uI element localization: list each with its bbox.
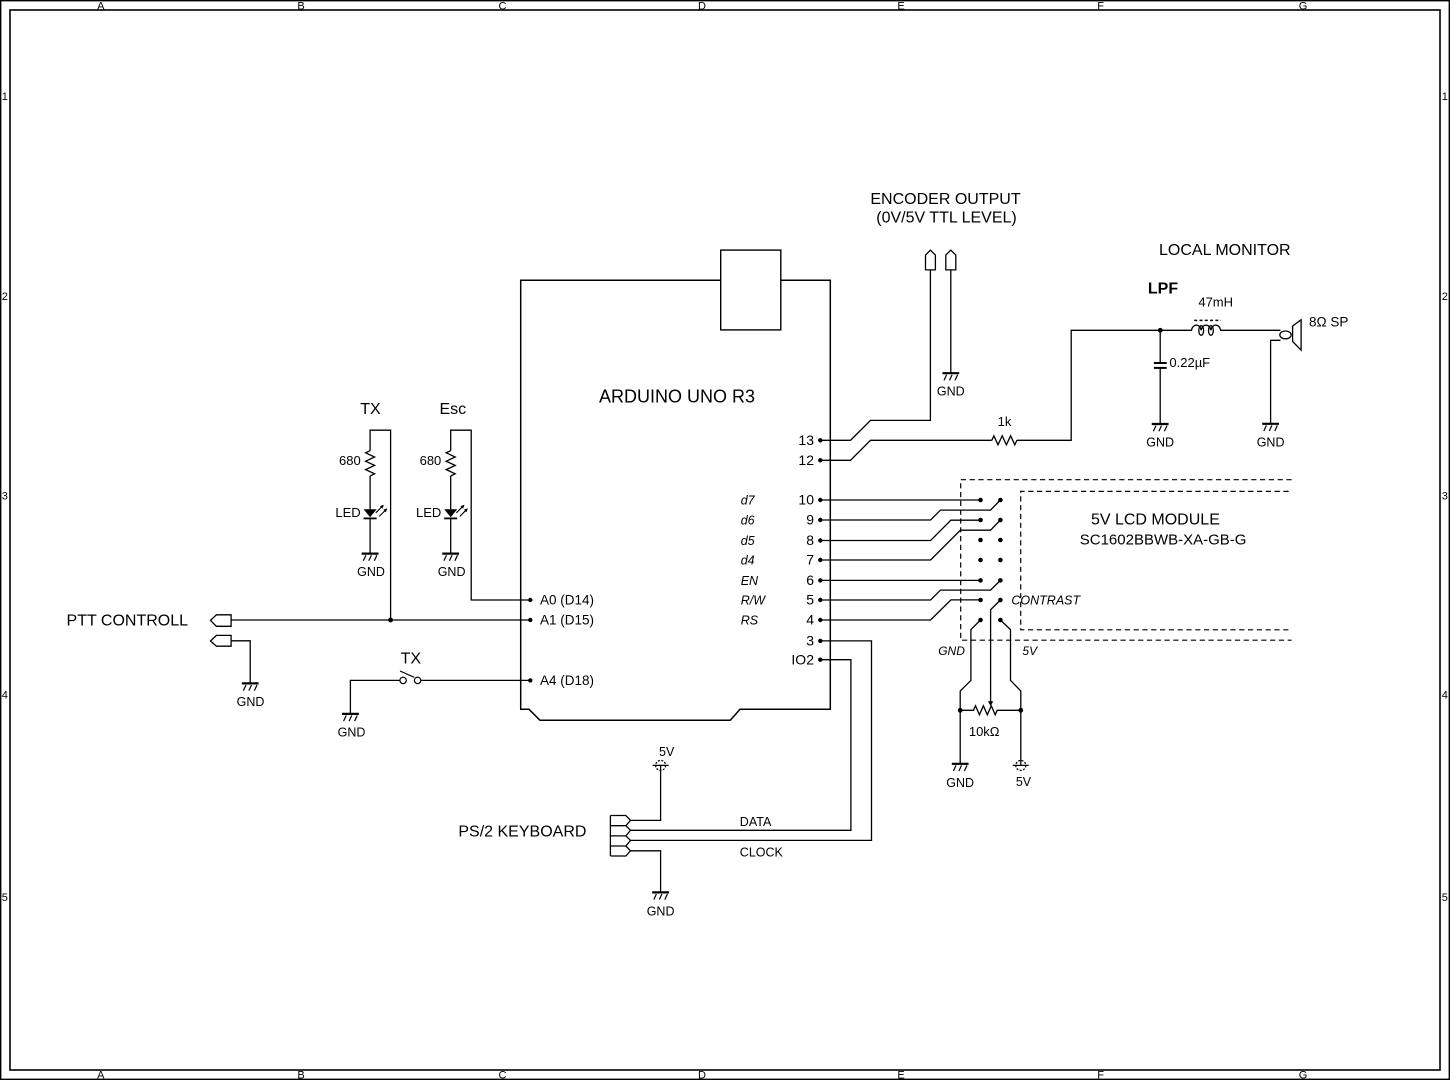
wire LED to ground (Esc) bbox=[450, 518, 452, 553]
wire LED to ground (TX) bbox=[369, 518, 371, 553]
wire LCD contrast pad to potentiometer wiper bbox=[991, 600, 1001, 702]
svg-text:DATA: DATA bbox=[740, 815, 772, 829]
speaker SP1 driver coil bbox=[1280, 331, 1291, 339]
svg-text:GND: GND bbox=[938, 644, 965, 658]
ground (TX LED) bbox=[357, 554, 385, 579]
pin 9 bbox=[806, 512, 822, 528]
Arduino UNO R3 module outline bbox=[521, 280, 831, 720]
wire pin7 to LCD d4 bbox=[820, 520, 1000, 560]
svg-text:LOCAL MONITOR: LOCAL MONITOR bbox=[1159, 242, 1291, 259]
wire pin13 to encoder J1 bbox=[820, 270, 930, 440]
ground (PS/2) bbox=[647, 892, 675, 918]
ground (LPF capacitor) bbox=[1146, 424, 1174, 449]
svg-text:TX: TX bbox=[360, 401, 381, 418]
wire encoder J2 to ground bbox=[950, 270, 952, 373]
svg-text:2: 2 bbox=[1442, 291, 1448, 303]
wire 680 to LED (Esc) bbox=[450, 476, 452, 509]
connector PTT signal pin bbox=[211, 615, 232, 627]
svg-text:680: 680 bbox=[420, 453, 442, 468]
potentiometer 10k body bbox=[960, 706, 1021, 715]
svg-text:3: 3 bbox=[1442, 491, 1448, 503]
svg-text:5V: 5V bbox=[1016, 775, 1032, 789]
svg-text:5: 5 bbox=[1442, 892, 1448, 904]
svg-text:5V: 5V bbox=[1022, 644, 1038, 658]
svg-text:LED: LED bbox=[335, 505, 360, 520]
ground (pot) bbox=[946, 764, 974, 790]
wire TX branch top jog bbox=[370, 430, 391, 620]
svg-text:R/W: R/W bbox=[741, 593, 767, 607]
svg-text:GND: GND bbox=[1257, 435, 1285, 449]
resistor 1k bbox=[992, 436, 1017, 445]
svg-text:CONTRAST: CONTRAST bbox=[1011, 594, 1081, 608]
node TX/PTT junction bbox=[388, 618, 393, 623]
LED D2 (Esc) bbox=[444, 505, 468, 519]
wire switch to A4 bbox=[421, 679, 531, 681]
wire PTT ground pin to ground bbox=[231, 641, 250, 683]
svg-text:PS/2 KEYBOARD: PS/2 KEYBOARD bbox=[458, 824, 586, 841]
svg-text:3: 3 bbox=[2, 491, 8, 503]
svg-text:GND: GND bbox=[1146, 435, 1174, 449]
ground (Esc LED) bbox=[438, 554, 466, 579]
power 5V (PS/2) bbox=[653, 745, 675, 770]
pin A0 (D14) bbox=[528, 593, 594, 608]
svg-text:TX: TX bbox=[401, 651, 422, 668]
svg-text:GND: GND bbox=[357, 565, 385, 579]
svg-text:12: 12 bbox=[798, 452, 814, 468]
svg-text:8: 8 bbox=[806, 532, 814, 548]
svg-text:ARDUINO UNO R3: ARDUINO UNO R3 bbox=[599, 387, 755, 407]
pin 13 bbox=[798, 432, 822, 448]
resistor 680 (TX) bbox=[366, 451, 375, 476]
svg-text:CLOCK: CLOCK bbox=[740, 846, 784, 860]
svg-text:d7: d7 bbox=[741, 493, 756, 507]
svg-text:GND: GND bbox=[946, 776, 974, 790]
svg-text:IO2: IO2 bbox=[791, 651, 814, 667]
wire pin9 to LCD d6 bbox=[820, 500, 1000, 520]
svg-text:5V: 5V bbox=[659, 745, 675, 759]
wire pin4 to LCD RS bbox=[820, 600, 980, 620]
LCD module outer dashed box bbox=[961, 480, 1292, 641]
svg-text:5V LCD MODULE: 5V LCD MODULE bbox=[1091, 512, 1220, 529]
USB connector square on Arduino bbox=[721, 250, 781, 330]
svg-text:SC1602BBWB-XA-GB-G: SC1602BBWB-XA-GB-G bbox=[1080, 531, 1247, 548]
svg-text:10: 10 bbox=[798, 492, 814, 508]
svg-text:ENCODER OUTPUT: ENCODER OUTPUT bbox=[870, 191, 1020, 208]
svg-text:A: A bbox=[97, 1070, 105, 1080]
svg-text:6: 6 bbox=[806, 572, 814, 588]
svg-text:4: 4 bbox=[806, 612, 814, 628]
svg-text:4: 4 bbox=[2, 690, 8, 702]
svg-text:LED: LED bbox=[416, 505, 441, 520]
svg-text:7: 7 bbox=[806, 552, 814, 568]
svg-text:680: 680 bbox=[339, 453, 361, 468]
wire CLOCK: PS/2 pin3 to pin 3 bbox=[631, 641, 872, 841]
node pot right terminal bbox=[1018, 708, 1023, 713]
pin 12 bbox=[798, 452, 822, 468]
wire pot right to 5V bbox=[1020, 710, 1022, 765]
svg-text:d6: d6 bbox=[741, 513, 755, 527]
svg-text:A4 (D18): A4 (D18) bbox=[540, 673, 594, 688]
wire pin5 to LCD R/W bbox=[820, 580, 1000, 600]
encoder output pin J2 bbox=[946, 250, 956, 270]
svg-text:C: C bbox=[499, 1070, 507, 1080]
wire pin12 to 1k resistor bbox=[820, 440, 992, 460]
LED D1 (TX) bbox=[364, 505, 388, 519]
svg-text:GND: GND bbox=[438, 565, 466, 579]
LCD connector pads right column bbox=[998, 498, 1003, 623]
wire PS/2 pin4 to ground bbox=[631, 851, 661, 892]
wire PTT to A1 bbox=[231, 619, 530, 621]
svg-text:LPF: LPF bbox=[1148, 281, 1178, 298]
pin 4 bbox=[806, 612, 822, 628]
svg-text:GND: GND bbox=[338, 725, 366, 739]
svg-text:PTT CONTROLL: PTT CONTROLL bbox=[67, 613, 189, 630]
svg-text:4: 4 bbox=[1442, 690, 1448, 702]
wire capacitor to ground bbox=[1159, 368, 1161, 424]
svg-text:G: G bbox=[1299, 0, 1308, 12]
svg-text:1k: 1k bbox=[998, 414, 1012, 429]
pin 10 bbox=[798, 492, 822, 508]
wire speaker low side to ground bbox=[1271, 340, 1281, 423]
svg-text:1: 1 bbox=[2, 91, 8, 103]
svg-text:9: 9 bbox=[806, 512, 814, 528]
svg-text:C: C bbox=[499, 0, 507, 12]
svg-text:5: 5 bbox=[806, 592, 814, 608]
wire PS/2 pin1 to 5V bbox=[631, 765, 661, 820]
power 5V (pot) bbox=[1013, 760, 1032, 789]
wire 680 to LED (TX) bbox=[369, 476, 371, 509]
ground (TX switch) bbox=[338, 714, 366, 740]
svg-text:2: 2 bbox=[2, 291, 8, 303]
node pot left terminal bbox=[958, 708, 963, 713]
pin 6 bbox=[806, 572, 822, 588]
inductor L1 47mH bbox=[1160, 325, 1280, 335]
wire LCD 5V pad down bbox=[1000, 620, 1020, 710]
svg-text:GND: GND bbox=[647, 904, 675, 918]
pin A4 (D18) bbox=[528, 673, 594, 688]
svg-text:d5: d5 bbox=[741, 534, 755, 548]
wire pin6 to LCD EN bbox=[820, 579, 980, 581]
svg-text:A0 (D14): A0 (D14) bbox=[540, 593, 594, 608]
svg-text:GND: GND bbox=[237, 695, 265, 709]
svg-text:EN: EN bbox=[741, 574, 759, 588]
pin 5 bbox=[806, 592, 822, 608]
svg-text:47mH: 47mH bbox=[1198, 295, 1233, 310]
encoder output pin J1 bbox=[926, 250, 936, 270]
connector PS/2 pins bbox=[610, 816, 630, 857]
svg-text:1: 1 bbox=[1442, 91, 1448, 103]
svg-text:F: F bbox=[1097, 1070, 1104, 1080]
pin 7 bbox=[806, 552, 822, 568]
svg-text:A1 (D15): A1 (D15) bbox=[540, 613, 594, 628]
svg-text:F: F bbox=[1097, 0, 1104, 12]
svg-text:B: B bbox=[297, 1070, 304, 1080]
wire DATA: PS/2 pin2 to IO2 bbox=[631, 660, 851, 831]
svg-text:8Ω SP: 8Ω SP bbox=[1309, 315, 1348, 330]
svg-text:13: 13 bbox=[798, 432, 814, 448]
wire LPF node down to capacitor bbox=[1159, 330, 1161, 362]
potentiometer wiper arrow bbox=[988, 701, 993, 706]
pin IO2 bbox=[791, 651, 822, 667]
pin 8 bbox=[806, 532, 822, 548]
svg-text:d4: d4 bbox=[741, 553, 755, 567]
pin 3 bbox=[806, 633, 822, 649]
svg-text:A: A bbox=[97, 0, 105, 12]
speaker SP1 horn bbox=[1293, 320, 1302, 350]
pin A1 (D15) bbox=[528, 613, 594, 628]
svg-text:Esc: Esc bbox=[439, 401, 466, 418]
ground (PTT) bbox=[237, 683, 265, 709]
wire 1k resistor to LPF node bbox=[1017, 330, 1160, 440]
ground (encoder) bbox=[937, 373, 965, 399]
svg-text:3: 3 bbox=[806, 633, 814, 649]
svg-text:RS: RS bbox=[741, 613, 759, 627]
wire Esc branch top jog bbox=[451, 430, 531, 600]
svg-text:D: D bbox=[698, 1070, 706, 1080]
svg-text:B: B bbox=[297, 0, 304, 12]
LCD connector pads left column bbox=[978, 498, 983, 623]
connector PTT ground pin bbox=[211, 635, 232, 646]
wire pin8 to LCD d5 bbox=[820, 520, 980, 540]
inductor L1 47mH core dashes bbox=[1194, 319, 1221, 321]
svg-text:E: E bbox=[897, 1070, 904, 1080]
svg-text:0.22µF: 0.22µF bbox=[1169, 355, 1210, 370]
capacitor 0.22uF bbox=[1154, 363, 1167, 368]
svg-text:10kΩ: 10kΩ bbox=[969, 724, 1000, 739]
svg-text:GND: GND bbox=[937, 385, 965, 399]
svg-text:5: 5 bbox=[2, 892, 8, 904]
switch SW1 TX bbox=[400, 671, 421, 684]
wire switch to ground bbox=[350, 680, 400, 713]
node LPF junction bbox=[1158, 328, 1163, 333]
svg-text:(0V/5V TTL LEVEL): (0V/5V TTL LEVEL) bbox=[876, 210, 1017, 227]
svg-text:E: E bbox=[897, 0, 904, 12]
resistor 680 (Esc) bbox=[446, 451, 455, 476]
wire pot left to ground bbox=[959, 710, 961, 763]
LCD module inner dashed box bbox=[1021, 491, 1289, 629]
svg-text:D: D bbox=[698, 0, 706, 12]
svg-text:G: G bbox=[1299, 1070, 1308, 1080]
wire LCD gnd pad down bbox=[960, 620, 980, 710]
wire pin10 to LCD d7 bbox=[820, 499, 980, 501]
ground (speaker) bbox=[1257, 424, 1285, 450]
